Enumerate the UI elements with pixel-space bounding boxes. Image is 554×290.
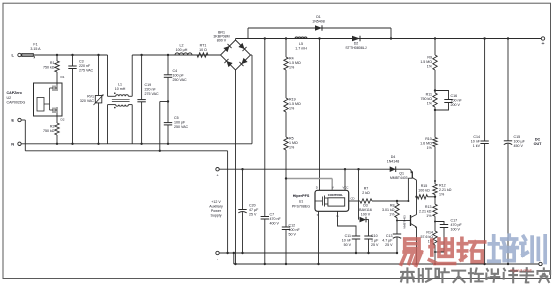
svg-text:+12 V: +12 V bbox=[211, 200, 221, 204]
svg-text:D2: D2 bbox=[61, 118, 65, 122]
svg-text:100 µF: 100 µF bbox=[514, 139, 526, 143]
svg-text:100 µH: 100 µH bbox=[176, 48, 188, 52]
svg-text:+: + bbox=[541, 41, 544, 47]
svg-text:750 kΩ: 750 kΩ bbox=[43, 129, 55, 133]
svg-text:RV1: RV1 bbox=[87, 95, 94, 99]
svg-text:1%: 1% bbox=[439, 193, 445, 197]
svg-text:MMBT4403: MMBT4403 bbox=[390, 176, 408, 180]
svg-text:V: V bbox=[332, 185, 334, 189]
svg-text:200 V: 200 V bbox=[451, 103, 461, 107]
svg-text:50 V: 50 V bbox=[344, 243, 352, 247]
svg-text:100 nF: 100 nF bbox=[289, 228, 301, 232]
svg-text:L5: L5 bbox=[299, 42, 303, 46]
svg-text:1%: 1% bbox=[389, 212, 395, 216]
svg-text:1%: 1% bbox=[289, 66, 295, 70]
svg-text:250 VAC: 250 VAC bbox=[174, 125, 189, 129]
svg-text:275 VAC: 275 VAC bbox=[145, 92, 160, 96]
svg-text:1%: 1% bbox=[427, 146, 433, 150]
svg-text:1N4148: 1N4148 bbox=[387, 160, 400, 164]
svg-text:STTH0808LJ: STTH0808LJ bbox=[345, 46, 366, 50]
svg-text:1.5 MΩ: 1.5 MΩ bbox=[289, 102, 301, 106]
svg-text:10 nF: 10 nF bbox=[342, 239, 352, 243]
svg-text:2.21 kΩ: 2.21 kΩ bbox=[419, 210, 432, 214]
svg-text:Supply: Supply bbox=[211, 214, 222, 218]
svg-text:R12: R12 bbox=[439, 184, 446, 188]
svg-text:R15: R15 bbox=[421, 184, 428, 188]
svg-text:100 pF: 100 pF bbox=[174, 121, 186, 125]
svg-text:250 VAC: 250 VAC bbox=[173, 78, 188, 82]
svg-text:1%: 1% bbox=[289, 146, 295, 150]
svg-text:1.6 MΩ: 1.6 MΩ bbox=[420, 142, 432, 146]
svg-text:R13: R13 bbox=[425, 205, 432, 209]
svg-text:D1: D1 bbox=[61, 75, 65, 79]
svg-text:3.15 A: 3.15 A bbox=[30, 47, 41, 51]
svg-text:R14: R14 bbox=[426, 231, 433, 235]
svg-text:400 V: 400 V bbox=[270, 222, 280, 226]
svg-text:R2: R2 bbox=[50, 125, 55, 129]
svg-text:4.7 µF: 4.7 µF bbox=[382, 239, 393, 243]
svg-text:C15: C15 bbox=[514, 135, 521, 139]
svg-text:D1: D1 bbox=[316, 15, 321, 19]
svg-text:800 V: 800 V bbox=[217, 39, 227, 43]
svg-text:C3: C3 bbox=[79, 60, 84, 64]
svg-text:DC: DC bbox=[535, 138, 541, 142]
svg-text:1%: 1% bbox=[427, 65, 433, 69]
svg-text:10 nF: 10 nF bbox=[471, 139, 481, 143]
svg-text:C4: C4 bbox=[173, 69, 178, 73]
svg-text:100 V: 100 V bbox=[361, 212, 371, 216]
svg-text:D4: D4 bbox=[391, 155, 396, 159]
svg-text:VCC: VCC bbox=[343, 185, 349, 189]
svg-text:Figure-8 circuit: Figure-8 circuit bbox=[510, 269, 531, 273]
svg-text:320 VAC: 320 VAC bbox=[80, 99, 95, 103]
svg-text:1N5408: 1N5408 bbox=[312, 20, 325, 24]
svg-text:2.21 kΩ: 2.21 kΩ bbox=[439, 188, 452, 192]
svg-text:3.01 kΩ: 3.01 kΩ bbox=[382, 208, 395, 212]
svg-text:CD: CD bbox=[351, 196, 355, 200]
svg-text:470 pF: 470 pF bbox=[451, 223, 463, 227]
svg-text:470 nF: 470 nF bbox=[270, 217, 282, 221]
svg-text:CAPZero: CAPZero bbox=[7, 91, 23, 95]
svg-text:1%: 1% bbox=[289, 107, 295, 111]
svg-text:C20: C20 bbox=[249, 204, 256, 208]
svg-text:10 mH: 10 mH bbox=[115, 87, 126, 91]
svg-text:100 pF: 100 pF bbox=[173, 74, 185, 78]
svg-text:F1: F1 bbox=[33, 42, 37, 46]
svg-text:C19: C19 bbox=[145, 83, 152, 87]
svg-text:C14: C14 bbox=[473, 135, 480, 139]
svg-text:C13: C13 bbox=[386, 234, 393, 238]
svg-text:R1: R1 bbox=[50, 61, 55, 65]
svg-text:R7: R7 bbox=[364, 187, 369, 191]
svg-text:450 V: 450 V bbox=[514, 144, 524, 148]
svg-text:25 V: 25 V bbox=[249, 213, 257, 217]
svg-text:BAV116: BAV116 bbox=[359, 208, 372, 212]
svg-text:2 kΩ: 2 kΩ bbox=[362, 191, 370, 195]
svg-text:C17: C17 bbox=[451, 219, 458, 223]
svg-text:1.5 MΩ: 1.5 MΩ bbox=[420, 60, 432, 64]
svg-text:C12: C12 bbox=[289, 224, 296, 228]
svg-text:U1: U1 bbox=[299, 199, 304, 203]
svg-text:275 VAC: 275 VAC bbox=[79, 69, 94, 73]
svg-text:N: N bbox=[11, 141, 14, 146]
svg-text:D2: D2 bbox=[354, 42, 359, 46]
svg-text:220 nF: 220 nF bbox=[145, 88, 157, 92]
svg-text:C7: C7 bbox=[270, 213, 275, 217]
svg-text:C5: C5 bbox=[174, 116, 179, 120]
svg-text:100 kΩ: 100 kΩ bbox=[418, 189, 430, 193]
svg-text:R10: R10 bbox=[425, 137, 432, 141]
svg-text:Auxiliary: Auxiliary bbox=[209, 205, 223, 209]
svg-text:C16: C16 bbox=[451, 94, 458, 98]
svg-text:100 V: 100 V bbox=[451, 228, 461, 232]
svg-text:E: E bbox=[11, 118, 14, 123]
svg-text:C10: C10 bbox=[371, 234, 378, 238]
svg-text:OUT: OUT bbox=[534, 142, 543, 146]
svg-text:47 µF: 47 µF bbox=[249, 208, 259, 212]
svg-text:R4: R4 bbox=[289, 57, 294, 61]
svg-text:CAP002DG: CAP002DG bbox=[7, 101, 26, 105]
svg-text:R8: R8 bbox=[390, 203, 395, 207]
svg-text:RT1: RT1 bbox=[200, 44, 207, 48]
svg-text:CONTROL: CONTROL bbox=[328, 193, 343, 197]
svg-text:R19: R19 bbox=[289, 98, 296, 102]
svg-text:R11: R11 bbox=[426, 93, 432, 97]
svg-text:750 kΩ: 750 kΩ bbox=[421, 97, 433, 101]
svg-text:1.5 MΩ: 1.5 MΩ bbox=[289, 61, 301, 65]
svg-text:L1: L1 bbox=[118, 83, 122, 87]
svg-text:25 V: 25 V bbox=[371, 243, 379, 247]
svg-text:25 V: 25 V bbox=[385, 243, 393, 247]
svg-text:U2: U2 bbox=[7, 96, 12, 100]
svg-text:1%: 1% bbox=[427, 102, 433, 106]
svg-text:100 nF: 100 nF bbox=[451, 99, 463, 103]
svg-text:1%: 1% bbox=[426, 214, 432, 218]
svg-text:MMBT4403: MMBT4403 bbox=[403, 215, 407, 229]
svg-text:10 Ω: 10 Ω bbox=[199, 48, 207, 52]
svg-text:L2: L2 bbox=[180, 44, 184, 48]
svg-text:1 µF: 1 µF bbox=[371, 239, 379, 243]
svg-text:PFS708EG: PFS708EG bbox=[292, 205, 310, 209]
svg-text:D: D bbox=[316, 185, 318, 189]
svg-text:1 MΩ: 1 MΩ bbox=[289, 141, 298, 145]
svg-text:50 V: 50 V bbox=[289, 233, 297, 237]
svg-text:Q1: Q1 bbox=[399, 172, 404, 176]
svg-text:C11: C11 bbox=[345, 234, 351, 238]
svg-text:R5: R5 bbox=[289, 137, 294, 141]
svg-text:R9: R9 bbox=[427, 56, 432, 60]
svg-text:1 kV: 1 kV bbox=[473, 144, 481, 148]
svg-text:1.7 mH: 1.7 mH bbox=[295, 47, 307, 51]
svg-text:220 nF: 220 nF bbox=[79, 64, 91, 68]
svg-text:HiperPFS: HiperPFS bbox=[293, 194, 310, 198]
svg-text:D3: D3 bbox=[363, 203, 368, 207]
svg-text:Power: Power bbox=[211, 209, 222, 213]
svg-text:750 kΩ: 750 kΩ bbox=[43, 66, 55, 70]
